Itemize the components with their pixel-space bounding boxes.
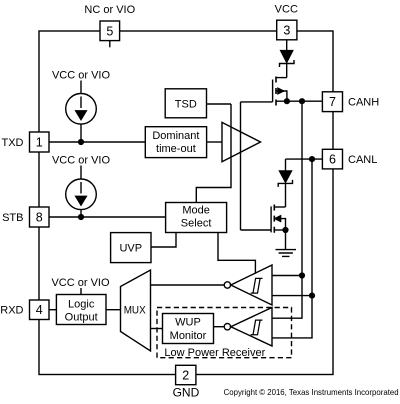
svg-text:VCC or VIO: VCC or VIO (51, 277, 110, 289)
svg-text:6: 6 (329, 153, 336, 167)
junction node receiver1 CANH (300, 273, 305, 278)
wire Mode Select to receiver enable (218, 233, 255, 274)
svg-text:RXD: RXD (0, 305, 23, 317)
wire pin 3 to upper diode (286, 40, 288, 51)
wire RXD to Logic Output (49, 309, 56, 311)
svg-text:8: 8 (36, 211, 43, 225)
junction node receiver1 CANL (310, 293, 315, 298)
wire Logic Output to MUX (106, 309, 121, 311)
WUP Monitor box (163, 314, 214, 344)
MUX trapezoid (121, 270, 151, 351)
wire MUX to WUP Monitor (151, 328, 163, 330)
svg-text:TSD: TSD (175, 98, 197, 110)
outer border rectangle (39, 31, 333, 375)
receiver U2 triangle (231, 265, 272, 305)
wire VCC or VIO stub into Logic Output (80, 288, 82, 295)
svg-text:Monitor: Monitor (170, 330, 207, 342)
wire lower gate (241, 229, 272, 231)
pin 3 box (277, 20, 297, 40)
svg-text:MUX: MUX (124, 305, 147, 317)
svg-text:2: 2 (182, 369, 189, 383)
wire VCC or VIO to I1 (80, 81, 82, 94)
svg-text:Dominant: Dominant (152, 130, 199, 142)
transistor Q2 channel segments (273, 205, 275, 233)
driver op-amp triangle (222, 122, 261, 161)
wire CANH line (276, 100, 322, 102)
wire UVP to Mode Select (151, 233, 176, 248)
svg-text:WUP: WUP (175, 317, 201, 329)
UVP box (111, 233, 151, 263)
transistor Q2 body arrow (275, 216, 281, 222)
transistor Q1 gate bar (272, 80, 274, 102)
receiver U3 triangle (231, 308, 272, 347)
wire receiver 1 input CANH (272, 275, 302, 277)
receiver U3 bubble (224, 324, 230, 330)
wire vertical B gate drive (240, 102, 242, 230)
wire zener to lower drain (285, 183, 287, 207)
junction node STB/I2 (79, 215, 84, 220)
wire I1 to TXD line (80, 124, 82, 142)
svg-text:STB: STB (2, 212, 23, 224)
pin 2 box (176, 365, 196, 384)
wire CANL line (286, 158, 323, 160)
svg-text:1: 1 (36, 136, 43, 150)
receiver U2 schmitt symbol (251, 278, 263, 293)
svg-text:Select: Select (181, 217, 212, 229)
wire TXD to Dominant time-out (49, 141, 145, 143)
transistor Q1 channel segments (275, 77, 277, 106)
svg-text:3: 3 (283, 24, 290, 38)
svg-text:NC or VIO: NC or VIO (84, 4, 135, 16)
svg-text:Low Power Receiver: Low Power Receiver (164, 347, 265, 359)
wire vertical A through driver to Mode Select (196, 104, 231, 203)
wire STB to Mode Select (49, 216, 166, 218)
junction node TXD/I1 (79, 140, 84, 145)
junction node CANH tap (300, 99, 305, 104)
wire upper gate (241, 101, 273, 103)
wire lower source (274, 229, 285, 231)
pin 7 box (322, 92, 342, 112)
low power receiver box (dashed) (157, 308, 292, 358)
Dominant time-out box (145, 127, 206, 158)
wire zener to upper drain (286, 64, 288, 78)
svg-text:CANH: CANH (348, 97, 379, 109)
diode D1 (VCC side) (281, 51, 293, 63)
svg-text:5: 5 (106, 25, 113, 39)
transistor Q1 body stub (276, 91, 287, 101)
svg-text:VCC or VIO: VCC or VIO (52, 155, 111, 167)
transistor Q1 body arrow (278, 88, 284, 94)
zener bar D2 (278, 180, 292, 187)
svg-text:Mode: Mode (182, 204, 210, 216)
svg-text:Output: Output (65, 311, 98, 323)
ground (276, 250, 297, 257)
wire MUX to receiver 1 bubble (151, 284, 225, 286)
wire TSD to vertical A (207, 103, 232, 105)
wire I2 to STB line (80, 210, 82, 217)
Logic Output box (56, 295, 106, 325)
wire CANH tap vertical to receiver 2 (272, 101, 302, 318)
wire Dominant time-out to driver (207, 141, 222, 143)
current source I1 arrow (80, 97, 82, 109)
svg-text:VCC: VCC (275, 4, 298, 16)
svg-text:UVP: UVP (119, 243, 142, 255)
svg-text:GND: GND (173, 386, 200, 400)
pin 1 box (30, 132, 50, 152)
svg-text:TXD: TXD (2, 137, 24, 149)
pin 6 box (322, 149, 342, 169)
pin 8 box (30, 207, 50, 227)
current source I1 circle (66, 94, 97, 125)
wire CANL tap vertical to receiver 2 (272, 159, 312, 338)
wire source to ground (285, 230, 287, 250)
zener bar D1 (280, 60, 295, 67)
svg-text:VCC or VIO: VCC or VIO (52, 70, 111, 82)
transistor Q2 gate bar (270, 206, 272, 232)
TSD box (165, 89, 206, 118)
svg-text:7: 7 (329, 95, 336, 109)
transistor Q2 body stub (274, 219, 285, 230)
pin 4 box (30, 300, 50, 320)
Mode Select box (166, 203, 227, 233)
junction node Q2 source (283, 228, 288, 233)
current source I2 arrow (80, 182, 82, 194)
wire lower drain stub (274, 206, 285, 208)
junction node CANL tap (310, 157, 315, 162)
wire receiver 1 input CANL (272, 295, 312, 297)
svg-text:Logic: Logic (68, 298, 95, 310)
svg-text:CANL: CANL (348, 154, 377, 166)
wire CANL to lower diode (285, 159, 287, 171)
wire WUP Monitor to receiver 2 bubble (214, 326, 225, 328)
receiver U2 bubble (224, 282, 230, 288)
svg-text:4: 4 (36, 303, 43, 317)
receiver U3 schmitt symbol (251, 320, 263, 335)
svg-text:Copyright © 2016, Texas Instru: Copyright © 2016, Texas Instruments Inco… (224, 387, 399, 397)
svg-text:time-out: time-out (156, 143, 196, 155)
current source I2 circle (66, 179, 97, 210)
junction node Q1 body on CANH (285, 99, 290, 104)
wire upper drain stub (276, 77, 287, 79)
wire VCC or VIO to I2 (80, 166, 82, 180)
pin 5 box (109, 41, 111, 48)
diode D2 (CANL side) (280, 171, 292, 182)
